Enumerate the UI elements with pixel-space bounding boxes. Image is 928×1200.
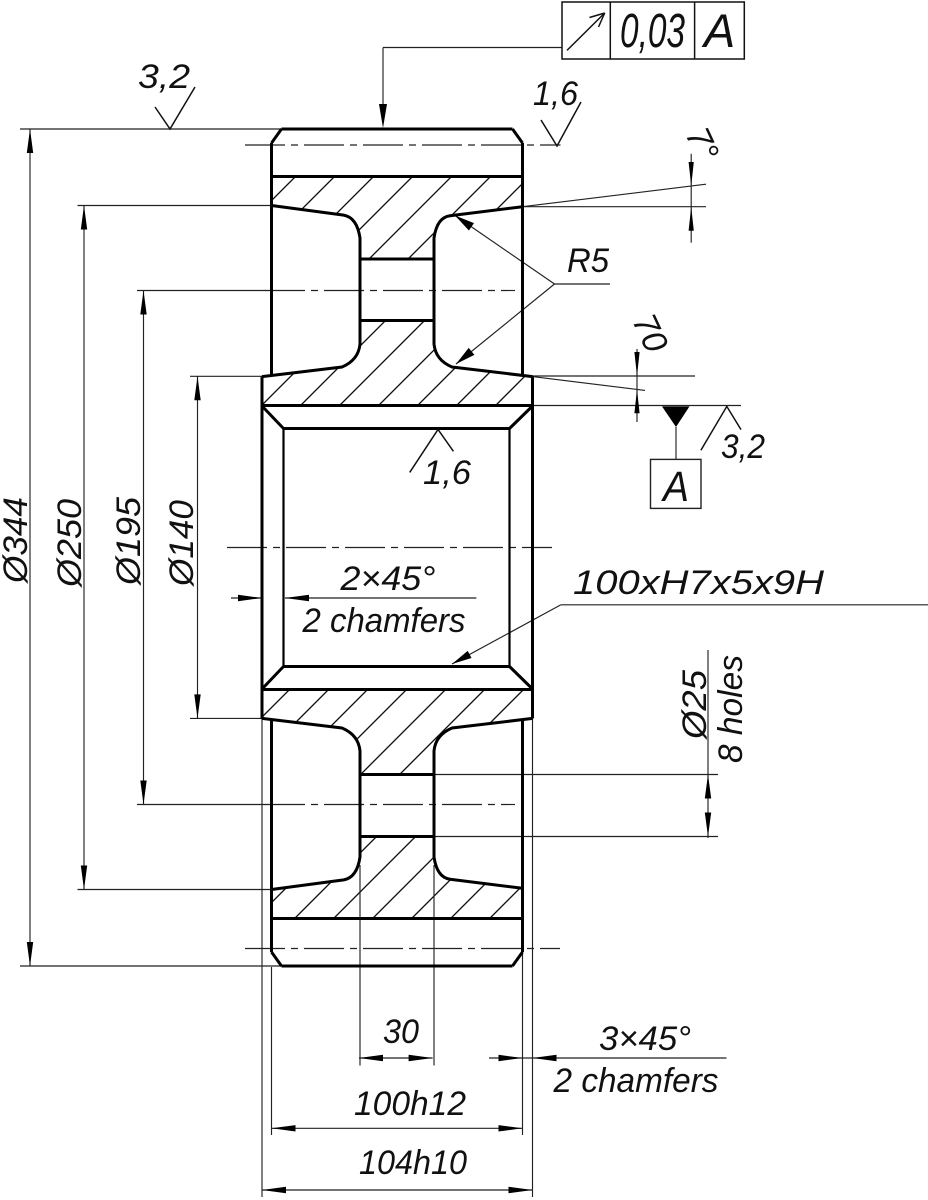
svg-text:R5: R5	[567, 242, 609, 280]
svg-text:Ø344: Ø344	[0, 497, 35, 584]
svg-text:Ø250: Ø250	[51, 499, 89, 588]
svg-text:104h10: 104h10	[359, 1144, 467, 1182]
svg-text:2 chamfers: 2 chamfers	[553, 1062, 719, 1100]
svg-text:100xH7x5x9H: 100xH7x5x9H	[573, 564, 825, 602]
svg-text:2 chamfers: 2 chamfers	[302, 602, 466, 640]
svg-text:1,6: 1,6	[533, 75, 578, 113]
svg-text:3×45°: 3×45°	[599, 1020, 691, 1058]
svg-text:Ø140: Ø140	[163, 500, 201, 587]
svg-text:8 holes: 8 holes	[712, 655, 750, 763]
svg-text:0,03: 0,03	[620, 5, 685, 58]
svg-text:30: 30	[383, 1013, 419, 1051]
svg-text:A: A	[701, 4, 735, 57]
svg-text:Ø25: Ø25	[676, 670, 714, 740]
svg-text:A: A	[660, 463, 689, 511]
svg-text:3,2: 3,2	[721, 428, 765, 466]
svg-text:100h12: 100h12	[354, 1085, 466, 1123]
svg-text:3,2: 3,2	[138, 58, 190, 96]
svg-text:1,6: 1,6	[423, 454, 471, 492]
svg-text:Ø195: Ø195	[110, 497, 148, 586]
svg-text:2×45°: 2×45°	[339, 560, 435, 598]
